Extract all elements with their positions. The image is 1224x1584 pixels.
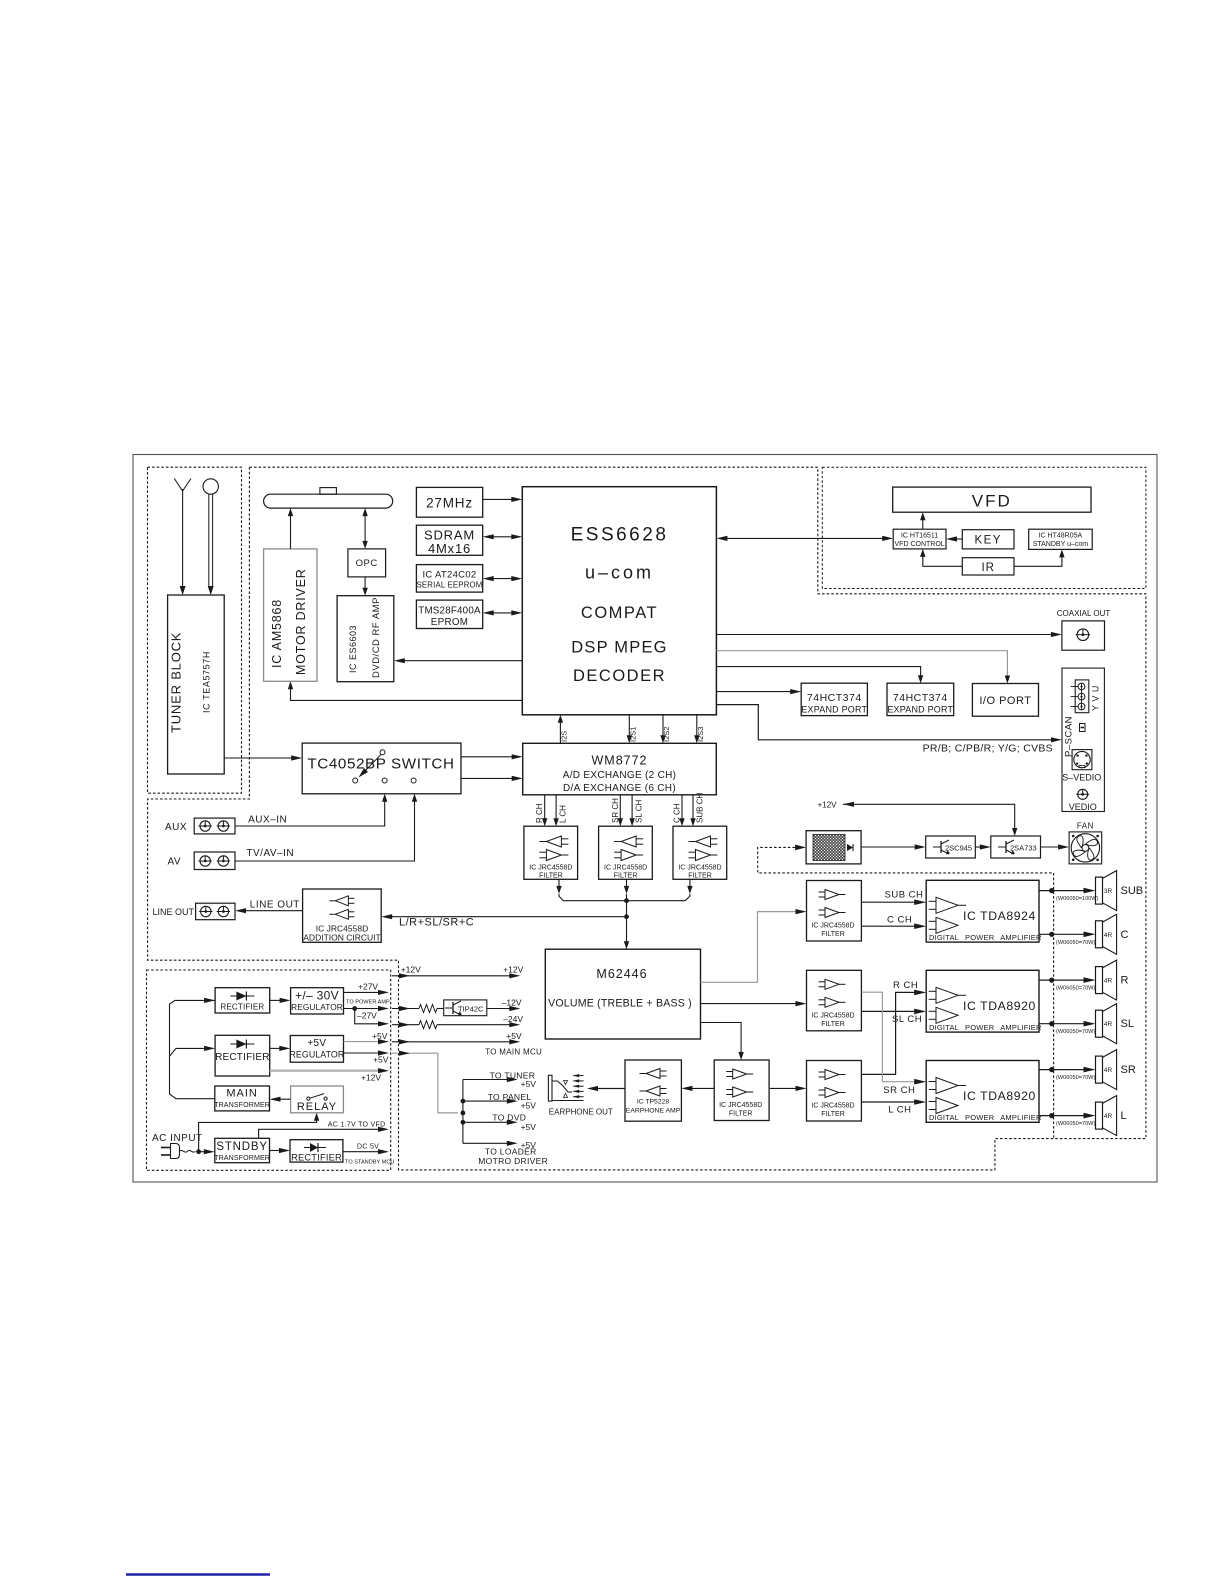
svg-text:TO POWER AMP: TO POWER AMP — [346, 999, 390, 1005]
svg-text:(W06050=70W): (W06050=70W) — [1056, 1121, 1095, 1127]
wire: 0V output with tap — [344, 1006, 390, 1011]
svg-text:TC4052BP SWITCH: TC4052BP SWITCH — [307, 756, 454, 773]
wire: M62446 to headphone-chain filter — [701, 1023, 744, 1061]
wire: sensor to 2SC945 — [861, 844, 926, 849]
svg-text:R: R — [1121, 975, 1129, 987]
svg-text:(W06050=70W): (W06050=70W) — [1056, 940, 1095, 946]
svg-text:–12V: –12V — [502, 998, 522, 1008]
block: RELAY — [291, 1086, 344, 1113]
block: SDRAM 4Mx16 — [416, 525, 482, 556]
wire: EEPROM bus (bidirectional) — [483, 576, 523, 581]
block: filter IC JRC4558D (R/SL) — [807, 970, 862, 1031]
svg-text:2SC945: 2SC945 — [945, 844, 972, 853]
svg-text:VEDIO: VEDIO — [1069, 802, 1097, 812]
svg-text:RELAY: RELAY — [297, 1101, 337, 1113]
wire: TDA8920 to SL speaker — [1039, 1021, 1096, 1035]
block: OPC — [348, 549, 386, 577]
block: filter IC JRC4558D (R/L) — [524, 826, 578, 879]
svg-text:+5V: +5V — [307, 1038, 326, 1049]
wire: SR CH (R/SL filter crossover to TDA8920) — [861, 992, 926, 1096]
svg-text:L/R+SL/SR+C: L/R+SL/SR+C — [399, 917, 474, 929]
wire: filter outputs merge bus to M62446 — [556, 879, 692, 949]
wire: R CH (SR/L filter crossover to TDA8920) — [861, 980, 926, 1074]
wire: IR to VFD control — [920, 549, 962, 566]
svg-text:PR/B; C/PB/R; Y/G; CVBS: PR/B; C/PB/R; Y/G; CVBS — [923, 743, 1053, 755]
svg-text:S–VEDIO: S–VEDIO — [1062, 773, 1101, 783]
svg-text:(W06050=70W): (W06050=70W) — [1056, 1029, 1095, 1035]
svg-text:REGULATOR: REGULATOR — [291, 1002, 343, 1012]
svg-text:IC HT16511: IC HT16511 — [901, 532, 938, 539]
svg-text:+/– 30V: +/– 30V — [295, 989, 339, 1003]
svg-text:FILTER: FILTER — [539, 873, 563, 880]
svg-text:COAXIAL OUT: COAXIAL OUT — [1057, 609, 1111, 618]
block: RECTIFIER (30V) — [215, 988, 270, 1013]
svg-text:IC JRC4558D: IC JRC4558D — [678, 865, 721, 872]
svg-text:4R: 4R — [1104, 1067, 1113, 1074]
rail: +5V distribution feed — [392, 1051, 458, 1113]
block: RECTIFIER (5V) — [215, 1035, 270, 1076]
wire: chain filter to SR/L filter — [770, 1086, 807, 1091]
svg-text:FAN: FAN — [1077, 822, 1094, 831]
svg-text:(W06050=100W): (W06050=100W) — [1056, 896, 1099, 902]
svg-text:TRANSFORMER: TRANSFORMER — [214, 1101, 270, 1109]
transistor 2SA733 — [991, 836, 1041, 858]
wire: I2S3 (ESS6628 to WM8772) — [694, 715, 705, 744]
svg-text:+12V: +12V — [361, 1073, 381, 1083]
wire: switch to WM8772 (lower) — [461, 776, 523, 781]
main board dashed border — [148, 467, 1146, 1170]
wire: video out PR/B C/PB/R Y/G CVBS to P-SCAN — [716, 705, 1062, 755]
wire: +12V to fan transistor — [818, 800, 1018, 836]
speaker R 4R — [1096, 960, 1129, 1000]
svg-text:DIGITAL POWER AMPLIFIER: DIGITAL POWER AMPLIFIER — [929, 1023, 1042, 1032]
svg-text:3R: 3R — [1104, 888, 1113, 895]
svg-text:FILTER: FILTER — [821, 931, 845, 938]
connector: EARPHONE OUT jack — [548, 1074, 613, 1117]
svg-text:A/D EXCHANGE (2 CH): A/D EXCHANGE (2 CH) — [563, 770, 677, 781]
wire: TDA8920 to L speaker — [1039, 1113, 1096, 1127]
svg-text:+5V: +5V — [521, 1101, 537, 1111]
rail: TO DVD +5V — [463, 1113, 536, 1133]
svg-text:+12V: +12V — [503, 964, 523, 974]
svg-text:MOTRO DRIVER: MOTRO DRIVER — [478, 1156, 548, 1166]
svg-text:EARPHONE OUT: EARPHONE OUT — [549, 1108, 613, 1117]
svg-text:FILTER: FILTER — [821, 1021, 845, 1028]
block: +/- 30V REGULATOR — [291, 988, 344, 1014]
svg-text:+5V: +5V — [506, 1031, 522, 1041]
svg-text:STANDBY u–com: STANDBY u–com — [1033, 541, 1089, 548]
wire: SR CH (WM8772 to filter) — [611, 795, 623, 826]
svg-text:+5V: +5V — [521, 1122, 537, 1132]
svg-text:DIGITAL POWER AMPLIFIER: DIGITAL POWER AMPLIFIER — [929, 933, 1042, 942]
svg-text:TIP42C: TIP42C — [458, 1004, 484, 1013]
wire: 27MHz to ESS6628 — [483, 497, 523, 502]
svg-text:I2S1: I2S1 — [628, 727, 637, 742]
wire: TV/AV-IN to switch — [235, 794, 417, 861]
wire: relay to main transformer — [270, 1097, 291, 1102]
svg-text:4R: 4R — [1104, 1113, 1113, 1120]
svg-text:IC AM5868: IC AM5868 — [270, 599, 284, 668]
block: IC TDA8920 DIGITAL POWER AMPLIFIER (SR/L) — [926, 1061, 1042, 1123]
rail: TO PANEL +5V — [463, 1092, 536, 1111]
svg-text:C CH: C CH — [673, 803, 682, 823]
wire: ESS6628 to expand port 2 — [716, 667, 923, 684]
wire: ESS6628 to RF amp — [394, 658, 523, 663]
antenna (rod) — [174, 479, 191, 596]
svg-text:FILTER: FILTER — [729, 1111, 753, 1118]
block: RECTIFIER (standby) — [290, 1140, 343, 1163]
svg-text:+5V: +5V — [521, 1079, 537, 1089]
svg-text:C: C — [1121, 929, 1129, 941]
wire: R CH (WM8772 to filter) — [535, 795, 547, 826]
svg-text:–27V: –27V — [357, 1010, 377, 1020]
wire: ESS6628 to motor driver — [288, 681, 523, 700]
wire: AUX-IN to switch — [235, 794, 387, 826]
svg-text:DIGITAL POWER AMPLIFIER: DIGITAL POWER AMPLIFIER — [929, 1113, 1042, 1122]
wire: 2SA733 to fan — [1041, 844, 1070, 849]
wire: -27V output — [355, 1009, 389, 1027]
svg-text:COMPAT: COMPAT — [581, 604, 658, 622]
svg-text:I/O PORT: I/O PORT — [979, 695, 1031, 707]
wire: ESS6628 to I/O port — [716, 651, 1010, 684]
svg-text:SR CH: SR CH — [883, 1085, 915, 1096]
block: IC AM5868 MOTOR DRIVER — [264, 549, 317, 681]
svg-text:IR: IR — [981, 562, 995, 574]
svg-text:I2S3: I2S3 — [696, 727, 705, 742]
svg-text:4R: 4R — [1104, 978, 1113, 985]
svg-text:4R: 4R — [1104, 1021, 1113, 1028]
block: 27MHz crystal — [416, 487, 482, 517]
block: KEY — [962, 530, 1014, 549]
svg-text:MAIN: MAIN — [226, 1088, 258, 1100]
svg-text:SR CH: SR CH — [611, 798, 620, 823]
block: TC4052BP SWITCH — [302, 743, 461, 794]
wire: VFD control to VFD — [920, 512, 925, 529]
svg-text:(W06050=70W): (W06050=70W) — [1056, 1075, 1095, 1081]
svg-text:OPC: OPC — [356, 558, 378, 569]
svg-text:R CH: R CH — [535, 803, 544, 823]
block: ESS6628 u-com COMPAT DSP MPEG DECODER — [522, 487, 716, 715]
svg-text:TRANSFORMER: TRANSFORMER — [214, 1154, 270, 1162]
wire: disc to OPC (bidirectional) — [362, 508, 367, 549]
wire: AC feed to rectifiers and main transformer — [170, 998, 216, 1099]
wire: I2S (WM8772 to ESS6628) — [558, 715, 569, 744]
wire: switch to WM8772 (upper) — [461, 754, 523, 759]
svg-text:IC JRC4558D: IC JRC4558D — [719, 1102, 762, 1109]
svg-text:I2S: I2S — [560, 731, 569, 742]
svg-text:LINE OUT: LINE OUT — [250, 900, 300, 911]
block: +5V REGULATOR — [289, 1036, 344, 1063]
wire: SL CH (WM8772 to filter) — [629, 795, 643, 826]
wire: KEY to VFD control — [946, 536, 962, 541]
svg-text:IC TEA5757H: IC TEA5757H — [202, 651, 212, 713]
svg-text:4Mx16: 4Mx16 — [428, 541, 471, 556]
svg-text:TO STANDBY MCU: TO STANDBY MCU — [345, 1160, 394, 1166]
block: 74HCT374 EXPAND PORT (2) — [887, 683, 954, 715]
svg-text:2SA733: 2SA733 — [1010, 844, 1037, 853]
svg-text:IC JRC4558D: IC JRC4558D — [811, 923, 854, 930]
wire: I2S1 (ESS6628 to WM8772) — [627, 715, 638, 744]
svg-text:REGULATOR: REGULATOR — [289, 1050, 344, 1060]
block: IC ES6603 DVD/CD RF AMP — [337, 596, 394, 682]
svg-text:u–com: u–com — [585, 563, 654, 583]
rail: -12V through TIP42C — [392, 998, 522, 1016]
wire: EPROM bus (bidirectional) — [483, 610, 523, 615]
wire: rectifier to 5V regulator — [270, 1046, 291, 1051]
svg-text:+27V: +27V — [358, 982, 378, 992]
svg-text:RECTIFIER: RECTIFIER — [215, 1052, 270, 1063]
block: IC HT16511 VFD CONTROL — [893, 529, 946, 549]
svg-text:Y V U: Y V U — [1091, 685, 1101, 711]
wire: SUB CH (WM8772 to filter) — [690, 793, 704, 827]
speaker C 4R — [1096, 914, 1129, 954]
speaker L 4R — [1096, 1096, 1127, 1136]
svg-text:IC ES6603: IC ES6603 — [348, 625, 358, 673]
svg-text:AUX–IN: AUX–IN — [248, 814, 287, 825]
block: I/O PORT — [972, 684, 1038, 717]
wire: L CH (WM8772 to filter) — [553, 795, 567, 826]
svg-text:SL CH: SL CH — [635, 800, 644, 823]
svg-text:VFD CONTROL: VFD CONTROL — [895, 541, 945, 548]
svg-text:SR: SR — [1121, 1064, 1136, 1076]
wire: IR to standby u-com — [1014, 549, 1065, 566]
connector: COAXIAL OUT — [1057, 609, 1111, 650]
wire: C CH filter to TDA8924 — [861, 914, 926, 929]
block: TMS28F400A EPROM — [416, 600, 482, 628]
svg-text:C CH: C CH — [887, 914, 912, 925]
disc (DVD loader) — [264, 488, 393, 509]
svg-text:SUB: SUB — [1121, 885, 1144, 897]
svg-text:FILTER: FILTER — [614, 873, 638, 880]
block: M62446 VOLUME (TREBLE + BASS) — [545, 949, 700, 1039]
wire: SL CH filter to TDA8920 — [861, 1009, 926, 1025]
svg-text:IC TP5228: IC TP5228 — [637, 1099, 670, 1106]
block: MAIN TRANSFORMER — [214, 1086, 270, 1111]
connector panel: P-SCAN (YVU / S-VEDIO / VEDIO) — [1062, 668, 1104, 812]
wire: TDA8920 to R speaker — [1039, 977, 1096, 991]
wire: AC input to standby transformer — [199, 1149, 215, 1154]
wire: 2SC945 to 2SA733 — [975, 844, 991, 849]
svg-text:EARPHONE AMP: EARPHONE AMP — [626, 1108, 681, 1115]
block: STNDBY TRANSFORMER — [214, 1138, 270, 1162]
wire: L CH filter to TDA8920 — [861, 1099, 926, 1116]
svg-text:+5V: +5V — [372, 1031, 388, 1041]
svg-text:VOLUME (TREBLE + BASS ): VOLUME (TREBLE + BASS ) — [548, 998, 692, 1010]
wire: AC to relay coil — [199, 1113, 320, 1152]
front panel (VFD) dashed border — [822, 467, 1146, 588]
svg-text:FILTER: FILTER — [821, 1111, 845, 1118]
block: filter IC JRC4558D (C/SUB) — [673, 826, 727, 879]
wire: ESS6628 to coaxial out — [716, 632, 1062, 637]
svg-text:ESS6628: ESS6628 — [571, 525, 669, 546]
wire: chain filter to earphone amp — [681, 1086, 714, 1091]
block: TUNER BLOCK IC TEA5757H — [168, 595, 225, 774]
block: filter IC JRC4558D (headphone chain) — [714, 1060, 769, 1121]
wire: motor driver to disc — [288, 508, 293, 549]
svg-text:SUB CH: SUB CH — [885, 890, 924, 901]
wire: +12V output — [270, 1068, 389, 1082]
block: IR receiver — [962, 558, 1014, 575]
block: IC TP5228 EARPHONE AMP — [625, 1060, 681, 1121]
svg-text:IC JRC4558D: IC JRC4558D — [811, 1103, 854, 1110]
svg-text:EPROM: EPROM — [431, 617, 468, 628]
svg-text:TO MAIN MCU: TO MAIN MCU — [485, 1048, 542, 1057]
svg-text:FILTER: FILTER — [688, 873, 712, 880]
svg-text:MOTOR DRIVER: MOTOR DRIVER — [294, 568, 308, 675]
wire: DC 5V to standby MCU — [343, 1144, 395, 1166]
svg-text:IC JRC4558D: IC JRC4558D — [811, 1012, 854, 1019]
svg-text:TMS28F400A: TMS28F400A — [418, 606, 481, 617]
svg-text:SL: SL — [1121, 1018, 1134, 1030]
block: WM8772 A/D D/A exchange — [523, 743, 717, 795]
antenna (FM loop) — [203, 479, 218, 595]
svg-text:DSP MPEG: DSP MPEG — [571, 639, 667, 657]
block: IC AT24C02 SERIAL EEPROM — [416, 565, 482, 593]
block: IC HT48R05A STANDBY u-com — [1029, 529, 1093, 549]
svg-text:IC JRC4558D: IC JRC4558D — [604, 865, 647, 872]
block: 74HCT374 EXPAND PORT (1) — [801, 683, 867, 715]
fan temperature-sense dashed wire — [758, 845, 1054, 1139]
block: IC TDA8924 DIGITAL POWER AMPLIFIER — [926, 880, 1042, 942]
wire: C CH (WM8772 to filter) — [673, 795, 685, 826]
svg-text:VFD: VFD — [972, 492, 1012, 511]
svg-text:DC 5V: DC 5V — [357, 1144, 379, 1151]
wire: AC 1.7V TO VFD — [259, 1121, 389, 1138]
svg-text:IC HT48R05A: IC HT48R05A — [1039, 532, 1083, 539]
wire: I2S2 (ESS6628 to WM8772) — [660, 715, 671, 744]
wire: M62446 to SUB/C filter — [701, 909, 807, 982]
svg-text:+12V: +12V — [401, 964, 421, 974]
svg-text:KEY: KEY — [974, 535, 1002, 547]
block: filter IC JRC4558D (SR/SL) — [599, 826, 653, 879]
transistor 2SC945 — [926, 836, 976, 858]
+5V distribution bus — [461, 1080, 466, 1144]
svg-text:AC 1.7V TO VFD: AC 1.7V TO VFD — [328, 1121, 386, 1128]
wire: earphone amp to earphone jack — [587, 1086, 625, 1091]
wire: +27V output — [344, 982, 390, 1006]
svg-text:IC JRC4558D: IC JRC4558D — [529, 865, 572, 872]
svg-text:DVD/CD RF AMP: DVD/CD RF AMP — [371, 597, 382, 678]
wire: ESS6628 to VFD control (bidirectional) — [716, 536, 893, 541]
svg-text:AC INPUT: AC INPUT — [152, 1133, 203, 1144]
svg-text:I2S2: I2S2 — [662, 727, 671, 742]
wire: SUB CH filter to TDA8924 — [861, 890, 926, 906]
svg-text:M62446: M62446 — [596, 967, 647, 981]
svg-text:SUB CH: SUB CH — [696, 793, 705, 823]
svg-text:–24V: –24V — [503, 1014, 523, 1024]
rail: TO TUNER +5V — [463, 1070, 536, 1089]
block: filter IC JRC4558D (SR/L) — [807, 1061, 862, 1122]
block: filter IC JRC4558D (SUB/C) — [807, 881, 862, 942]
svg-text:EXPAND PORT: EXPAND PORT — [801, 705, 867, 715]
svg-text:ADDITION CIRCUIT: ADDITION CIRCUIT — [303, 933, 380, 943]
svg-text:L CH: L CH — [559, 805, 568, 823]
wire: TDA8924 to SUB speaker — [1039, 888, 1099, 902]
rail: +12V — [392, 964, 524, 978]
rail: +5V TO MAIN MCU — [392, 1031, 542, 1057]
wire: ESS6628 to expand port 1 — [716, 689, 801, 694]
svg-text:SERIAL EEPROM: SERIAL EEPROM — [416, 580, 482, 589]
block: VFD display — [893, 487, 1091, 512]
wire: M62446 to R/SL filter — [701, 1001, 807, 1006]
svg-text:74HCT374: 74HCT374 — [807, 692, 862, 704]
svg-text:EXPAND PORT: EXPAND PORT — [887, 705, 953, 715]
svg-text:DECODER: DECODER — [573, 667, 666, 685]
wire: tuner block to switch — [224, 755, 302, 760]
FAN — [1069, 822, 1102, 864]
svg-text:AV: AV — [168, 857, 182, 868]
svg-text:L CH: L CH — [888, 1105, 911, 1116]
power supply dashed border — [147, 970, 391, 1170]
svg-text:R CH: R CH — [893, 980, 918, 991]
svg-text:IC TDA8920: IC TDA8920 — [963, 999, 1036, 1013]
wire: addition circuit to LINE OUT — [235, 900, 303, 914]
block: IC TDA8920 DIGITAL POWER AMPLIFIER (R/SL) — [926, 970, 1042, 1032]
rail: -24V — [392, 1014, 523, 1029]
wire: +5V output (2) — [344, 1050, 390, 1064]
speaker SR 4R — [1096, 1050, 1136, 1090]
svg-text:IC TDA8924: IC TDA8924 — [963, 909, 1036, 923]
svg-text:+12V: +12V — [818, 800, 838, 809]
wire: standby transformer to rectifier — [270, 1148, 291, 1153]
svg-text:(W06050=70W): (W06050=70W) — [1056, 986, 1095, 992]
wire: OPC to RF amp — [362, 577, 367, 596]
svg-text:WM8772: WM8772 — [591, 754, 647, 768]
svg-text:AUX: AUX — [165, 822, 187, 833]
connector: AUX jacks — [165, 818, 235, 834]
svg-text:RECTIFIER: RECTIFIER — [291, 1153, 342, 1163]
svg-text:RECTIFIER: RECTIFIER — [220, 1003, 264, 1012]
svg-text:SL CH: SL CH — [892, 1014, 922, 1025]
page frame — [133, 455, 1157, 1183]
svg-text:27MHz: 27MHz — [426, 496, 473, 511]
svg-text:+5V: +5V — [373, 1054, 389, 1064]
wire: TDA8920 to SR speaker — [1039, 1067, 1096, 1081]
svg-text:D/A EXCHANGE (6 CH): D/A EXCHANGE (6 CH) — [563, 783, 676, 794]
svg-text:LINE OUT: LINE OUT — [153, 907, 195, 917]
wire: +5V output (1) — [344, 1031, 390, 1044]
speaker SUB 3R — [1096, 871, 1144, 911]
svg-text:P–SCAN: P–SCAN — [1064, 716, 1075, 757]
svg-text:74HCT374: 74HCT374 — [893, 692, 948, 704]
svg-text:L: L — [1121, 1110, 1127, 1122]
svg-text:TV/AV–IN: TV/AV–IN — [246, 848, 294, 859]
speaker SL 4R — [1096, 1004, 1134, 1044]
block: IC JRC4558D ADDITION CIRCUIT — [303, 889, 382, 943]
connector: LINE OUT jacks — [153, 903, 236, 920]
svg-text:4R: 4R — [1104, 932, 1113, 939]
svg-text:IC AT24C02: IC AT24C02 — [422, 570, 476, 581]
footer rule (blue) — [126, 1573, 270, 1575]
svg-text:STNDBY: STNDBY — [216, 1141, 267, 1153]
connector: AV jacks — [168, 852, 236, 870]
svg-text:TUNER BLOCK: TUNER BLOCK — [169, 632, 184, 733]
svg-text:IC TDA8920: IC TDA8920 — [963, 1089, 1036, 1103]
thermal sensor (thermistor on heatsink) — [789, 831, 869, 864]
wire: L/R+SL/SR+C into addition circuit — [381, 914, 626, 928]
rail: TO LOADER MOTRO DRIVER +5V — [463, 1140, 548, 1166]
wire: rectifier to 30V regulator — [270, 998, 291, 1003]
wire: TDA8924 to C speaker — [1039, 932, 1096, 946]
wire: SDRAM bus (bidirectional) — [483, 534, 523, 539]
tuner section dashed border — [148, 467, 242, 793]
AC INPUT plug — [152, 1133, 203, 1159]
